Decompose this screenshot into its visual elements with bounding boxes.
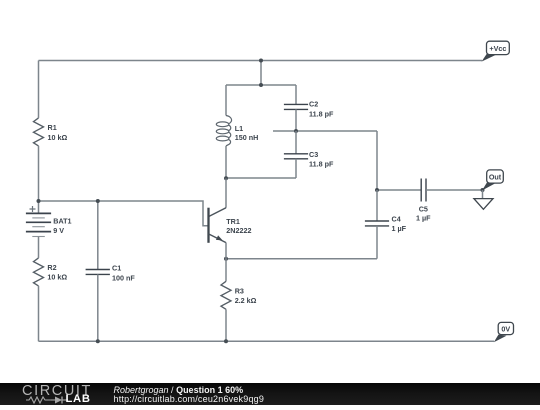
node C2 C3 junction <box>294 129 298 133</box>
svg-text:0V: 0V <box>501 325 510 334</box>
node tank top junction <box>259 83 263 87</box>
wire top rail <box>39 60 483 62</box>
transistor TR1 <box>209 179 227 259</box>
wire left rail middle <box>38 146 40 214</box>
svg-text:11.8 pF: 11.8 pF <box>309 109 334 118</box>
wire C2 bottom lead <box>295 109 297 131</box>
svg-text:9 V: 9 V <box>53 226 64 235</box>
node R3 bottom junction <box>224 339 228 343</box>
wire C4 top lead <box>376 190 378 221</box>
capacitor C3 <box>284 154 308 159</box>
svg-text:C1: C1 <box>112 264 121 273</box>
svg-text:+Vcc: +Vcc <box>489 44 506 53</box>
label C4 1 uF <box>392 215 407 233</box>
label R2 10 kOhm <box>47 263 67 282</box>
svg-text:2N2222: 2N2222 <box>226 226 251 235</box>
svg-text:C3: C3 <box>309 150 318 159</box>
wire C3 top lead <box>295 131 297 154</box>
label BAT1 9 V <box>53 217 71 236</box>
svg-text:R1: R1 <box>48 123 57 132</box>
inductor L1 <box>216 116 231 147</box>
wire R3 to bottom rail <box>225 309 227 341</box>
battery BAT1 <box>26 206 51 237</box>
label C1 100 nF <box>112 264 135 283</box>
wire L1 bottom lead <box>225 146 227 179</box>
wire L1 top lead <box>225 85 227 116</box>
node emitter junction <box>224 257 228 261</box>
node C1 top junction <box>96 199 100 203</box>
flag 0V <box>494 322 514 342</box>
label L1 150 nH <box>235 124 259 142</box>
wire emitter return <box>226 258 377 260</box>
wire C2 top lead <box>295 85 297 104</box>
svg-text:R3: R3 <box>235 287 244 296</box>
svg-text:R2: R2 <box>47 263 56 272</box>
wire left rail upper <box>38 61 40 118</box>
svg-text:2.2 kΩ: 2.2 kΩ <box>235 296 257 305</box>
label TR1 2N2222 <box>226 217 251 235</box>
svg-text:100 nF: 100 nF <box>112 273 135 282</box>
wire C1 top branch <box>97 201 99 270</box>
label C3 11.8 pF <box>309 150 334 169</box>
footer branding bar <box>0 383 540 405</box>
wire C5 right lead <box>426 189 483 191</box>
svg-text:11.8 pF: 11.8 pF <box>309 159 334 168</box>
wire stub left of C2 C3 node <box>273 130 296 132</box>
svg-text:Out: Out <box>489 172 502 181</box>
resistor R3 <box>221 281 231 309</box>
svg-text:L1: L1 <box>235 124 243 133</box>
resistor R2 <box>34 258 44 286</box>
capacitor C5 <box>421 179 426 202</box>
node C1 bottom junction <box>96 339 100 343</box>
resistor R1 <box>34 118 44 146</box>
wire bottom rail <box>39 340 495 342</box>
capacitor C4 <box>365 221 389 226</box>
wire C4 bottom lead <box>376 226 378 259</box>
wire right column drop <box>376 131 378 190</box>
node battery top junction <box>37 199 41 203</box>
node collector junction <box>224 176 228 180</box>
wire battery to R2 <box>38 237 40 258</box>
capacitor C2 <box>284 104 308 109</box>
node top rail junction <box>259 59 263 63</box>
svg-text:10 kΩ: 10 kΩ <box>48 133 68 142</box>
label C5 1 uF <box>416 205 431 223</box>
capacitor C1 <box>86 270 110 275</box>
wire C2 C3 node to right column <box>296 130 377 132</box>
wire tank top <box>226 84 296 86</box>
ground at output <box>474 190 493 209</box>
wire C3 bottom lead <box>295 159 297 178</box>
label C2 11.8 pF <box>309 100 334 119</box>
label R3 2.2 kOhm <box>235 287 257 306</box>
svg-text:1 µF: 1 µF <box>416 214 431 223</box>
svg-text:1 µF: 1 µF <box>392 224 407 233</box>
svg-text:TR1: TR1 <box>226 217 240 226</box>
wire base feed <box>39 201 209 226</box>
wire C1 bottom branch <box>97 274 99 341</box>
svg-text:10 kΩ: 10 kΩ <box>47 273 67 282</box>
svg-text:C4: C4 <box>392 215 401 224</box>
svg-text:150 nH: 150 nH <box>235 133 259 142</box>
svg-text:BAT1: BAT1 <box>53 217 71 226</box>
svg-text:C5: C5 <box>419 205 428 214</box>
wire left rail lower <box>38 286 40 341</box>
wire emitter to R3 <box>225 259 227 282</box>
node out flag junction <box>481 188 485 192</box>
wire C5 left lead <box>377 189 421 191</box>
flag +Vcc <box>482 41 510 61</box>
wire tank bottom <box>226 177 296 179</box>
node output junction <box>375 188 379 192</box>
wire Vcc tank drop <box>260 61 262 86</box>
svg-text:C2: C2 <box>309 100 318 109</box>
flag Out <box>482 170 503 191</box>
label R1 10 kOhm <box>48 123 68 142</box>
